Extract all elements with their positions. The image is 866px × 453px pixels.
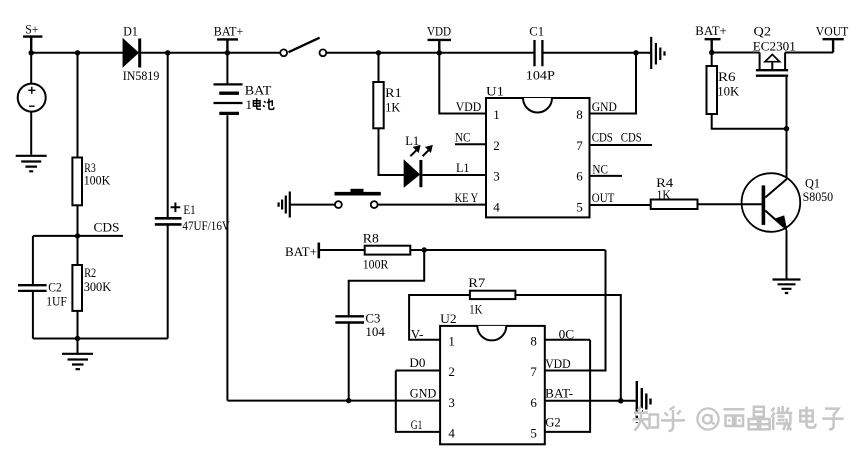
svg-text:BAT+: BAT+ — [285, 244, 317, 259]
label 300K — [84, 279, 112, 294]
svg-text:100K: 100K — [84, 172, 111, 187]
junction dot R6 top — [709, 50, 714, 55]
junction dot R1 top — [376, 50, 381, 55]
junction dot R3 top — [75, 50, 80, 55]
svg-text:C2: C2 — [48, 279, 62, 294]
label 1K R1 — [385, 100, 401, 115]
wire E1 bottom to rail — [167, 225, 169, 338]
svg-text:1: 1 — [493, 107, 500, 122]
ground Q1 — [773, 280, 801, 294]
wire Q1 emitter down — [786, 231, 788, 279]
svg-text:L1: L1 — [405, 133, 419, 148]
node BAT+ terminal mid — [317, 243, 320, 259]
svg-text:BAT+: BAT+ — [214, 24, 244, 39]
svg-text:5: 5 — [576, 199, 583, 214]
label L1 pin3 — [456, 160, 470, 175]
wire C3 bottom — [348, 324, 350, 401]
svg-text:BAT-: BAT- — [545, 386, 573, 401]
wire button to pin4 — [378, 204, 486, 206]
op-amp U1 IC body — [486, 98, 590, 217]
pin number 4 U2 — [448, 426, 455, 441]
wire R7 right riser — [515, 295, 620, 401]
label CDS net left — [94, 220, 120, 235]
label U2 — [440, 311, 457, 326]
wire D1 cathode to switch — [140, 52, 281, 54]
LED L1 diode — [404, 160, 421, 187]
label R4 — [656, 175, 674, 190]
svg-text:4: 4 — [448, 426, 455, 441]
label 104P — [526, 68, 555, 83]
resistor R8 — [365, 246, 411, 255]
resistor R1 — [373, 82, 383, 128]
resistor R4 — [651, 200, 698, 210]
svg-text:1K: 1K — [385, 100, 401, 115]
resistor R2 — [72, 265, 82, 311]
svg-text:R8: R8 — [363, 230, 379, 245]
wire LED to pin3 — [422, 174, 486, 176]
svg-text:D1: D1 — [123, 24, 138, 39]
label 100R — [363, 256, 389, 271]
ground U2 rotated — [637, 381, 651, 423]
svg-text:R1: R1 — [385, 85, 402, 100]
label R2 — [84, 265, 96, 280]
pin number 7 U2 — [530, 364, 537, 379]
node BAT+ terminal top — [217, 39, 238, 52]
solar cell symbol — [18, 84, 46, 112]
watermark zhihu at lijingwei (gray CJK strokes, embossed) — [634, 408, 845, 433]
resistor R6 — [707, 66, 718, 114]
capacitor C2 — [18, 285, 47, 291]
battery BAT — [214, 84, 243, 113]
label KEY pin4 — [455, 190, 479, 205]
svg-text:7: 7 — [530, 364, 537, 379]
label NC pin2 — [455, 129, 471, 144]
label R3 — [84, 160, 96, 175]
label L1 led — [405, 133, 419, 148]
svg-text:8: 8 — [530, 333, 537, 348]
junction dot GND column — [633, 50, 638, 55]
svg-text:BAT+: BAT+ — [695, 23, 727, 38]
svg-text:6: 6 — [576, 169, 583, 184]
label chi (CJK stroke glyph) — [263, 99, 274, 110]
pin number 2 U1 — [493, 138, 500, 153]
junction dot S+ column — [29, 50, 34, 55]
label CDS net right — [621, 129, 642, 144]
wire GND pin8 riser — [590, 53, 637, 114]
wire bottom rail left — [33, 338, 168, 340]
node BAT+ terminal right — [705, 39, 721, 52]
pin number 4 U1 — [493, 199, 500, 214]
wire top rail S+ to D1 — [31, 52, 123, 54]
svg-text:VDD: VDD — [456, 99, 482, 114]
svg-text:U2: U2 — [440, 311, 457, 326]
wire ground to button — [290, 204, 335, 206]
wire R4 to Q1 base — [698, 203, 762, 205]
label GND pin8 — [592, 99, 617, 114]
label EC2301 — [753, 39, 796, 54]
svg-text:KE Y: KE Y — [455, 190, 479, 205]
wire C2 bottom — [32, 292, 34, 339]
wire E1 top — [167, 53, 169, 217]
svg-text:U1: U1 — [486, 84, 504, 99]
svg-text:G2: G2 — [545, 415, 561, 430]
label V- pin1 — [411, 327, 424, 342]
svg-text:V-: V- — [411, 327, 424, 342]
svg-text:1: 1 — [448, 333, 455, 348]
label 10K — [717, 83, 740, 98]
wire R1 top — [378, 53, 380, 82]
pin number 3 U2 — [448, 395, 455, 410]
svg-text:1UF: 1UF — [46, 293, 67, 308]
svg-text:G1: G1 — [411, 417, 423, 432]
ground top right rotated — [651, 37, 664, 69]
wire R1 bottom to LED — [379, 128, 405, 175]
wire R8 to VDD riser — [410, 249, 605, 251]
svg-text:VDD: VDD — [427, 24, 451, 39]
wire BAT+ to Q2 source — [712, 52, 760, 54]
wire battery top — [226, 53, 228, 84]
pin number 3 U1 — [493, 169, 500, 184]
junction dot E1 top — [165, 50, 170, 55]
wire pin8 0C — [545, 339, 590, 341]
label R6 — [718, 69, 736, 84]
label R7 — [468, 275, 486, 290]
label R1 — [385, 85, 402, 100]
svg-text:EC2301: EC2301 — [753, 39, 796, 54]
label U1 — [486, 84, 504, 99]
svg-text:R2: R2 — [84, 265, 96, 280]
svg-text:6: 6 — [530, 395, 537, 410]
label VDD pin7 — [545, 356, 571, 371]
svg-text:VOUT: VOUT — [816, 24, 849, 39]
label E1 — [183, 202, 195, 217]
wire pin7 VDD riser — [545, 250, 606, 371]
label Q1 — [805, 176, 820, 191]
diode D1 — [123, 39, 139, 68]
label 104 C3 — [365, 324, 385, 339]
label C3 — [365, 310, 380, 325]
label IN5819 — [123, 68, 160, 83]
junction dot CDS — [75, 233, 80, 238]
svg-text:2: 2 — [493, 138, 500, 153]
svg-text:D0: D0 — [409, 355, 425, 370]
pin number 7 U1 — [576, 138, 583, 153]
ground below solar cell — [16, 156, 47, 172]
label Q2 — [754, 24, 772, 39]
label CDS pin7 — [592, 129, 613, 144]
wire pin4 G1 riser — [396, 371, 440, 432]
svg-text:104P: 104P — [526, 68, 555, 83]
ground below rail — [62, 354, 93, 369]
svg-text:104: 104 — [365, 324, 385, 339]
label VDD pin1 — [456, 99, 482, 114]
label BAT+ right — [695, 23, 727, 38]
svg-text:R6: R6 — [718, 69, 736, 84]
svg-text:10K: 10K — [717, 83, 740, 98]
wire solar cell top — [30, 53, 32, 84]
label S+ — [25, 22, 38, 37]
wire switch to C1 — [326, 52, 533, 54]
pin number 1 U2 — [448, 333, 455, 348]
label BAT- pin6 — [545, 386, 573, 401]
label dian (CJK stroke glyph) — [253, 98, 261, 109]
wire battery bottom long down — [226, 115, 228, 400]
svg-text:47UF/16V: 47UF/16V — [182, 218, 230, 233]
resistor R7 — [470, 291, 516, 299]
wire VDD down to pin1 — [439, 53, 486, 114]
svg-text:0C: 0C — [559, 326, 575, 341]
wire C1 to ground right — [542, 52, 650, 54]
pin number 6 U1 — [576, 169, 583, 184]
wire R3 top — [77, 53, 79, 158]
label 1K R4 — [657, 187, 672, 202]
svg-text:BAT: BAT — [245, 83, 272, 98]
label 0C pin8 — [559, 326, 575, 341]
ground at push button — [279, 192, 290, 218]
op-amp U2 IC body — [440, 326, 545, 444]
label GND pin3 — [410, 386, 437, 401]
label OUT pin5 — [592, 190, 615, 205]
node VDD terminal — [428, 40, 452, 53]
wire C2 top — [32, 236, 34, 284]
wire R2 bottom — [77, 311, 79, 339]
junction dot pin6 — [618, 398, 623, 403]
wire CDS net stub left — [33, 235, 123, 237]
svg-text:CDS: CDS — [621, 129, 642, 144]
label NC pin6 — [592, 162, 608, 177]
node S+ terminal — [23, 37, 42, 53]
label 1UF — [46, 293, 67, 308]
wire ground stub below rail — [77, 339, 79, 354]
label C1 — [529, 24, 544, 39]
resistor R3 — [72, 158, 82, 206]
push button KEY — [335, 189, 381, 208]
svg-text:S+: S+ — [25, 22, 38, 37]
svg-text:4: 4 — [493, 199, 500, 214]
wire pin6 NC stub — [590, 175, 623, 177]
label R8 — [363, 230, 379, 245]
pin number 6 U2 — [530, 395, 537, 410]
pin number 8 U2 — [530, 333, 537, 348]
pin number 5 U2 — [530, 426, 537, 441]
wire BAT+ to R8 — [319, 249, 365, 251]
pin number 5 U1 — [576, 199, 583, 214]
label VDD top — [427, 24, 451, 39]
label 47UF/16V — [182, 218, 230, 233]
svg-text:GND: GND — [592, 99, 617, 114]
svg-text:NC: NC — [592, 162, 608, 177]
svg-text:Q2: Q2 — [754, 24, 772, 39]
capacitor C1 — [535, 40, 543, 66]
label S8050 — [803, 189, 834, 204]
wire C3 link — [349, 250, 425, 315]
junction dot C3 bottom — [346, 398, 351, 403]
wire R6 bottom to gate — [712, 114, 787, 129]
svg-text:OUT: OUT — [592, 190, 615, 205]
label G2 pin5 — [545, 415, 561, 430]
LED light arrows — [410, 146, 432, 157]
svg-text:NC: NC — [455, 129, 471, 144]
svg-text:2: 2 — [448, 364, 455, 379]
svg-text:CDS: CDS — [94, 220, 120, 235]
capacitor C3 — [335, 316, 364, 322]
svg-text:100R: 100R — [363, 256, 389, 271]
switch S1 — [280, 38, 326, 56]
pin number 1 U1 — [493, 107, 500, 122]
wire R3 bottom to CDS node — [77, 205, 79, 236]
svg-text:IN5819: IN5819 — [123, 68, 160, 83]
label C2 — [48, 279, 62, 294]
pin number 8 U1 — [576, 107, 583, 122]
label D0 pin2 — [409, 355, 425, 370]
label BAT+ top — [214, 24, 244, 39]
wire pin2 D0 — [396, 370, 440, 372]
svg-text:1K: 1K — [469, 301, 482, 316]
label BAT — [245, 83, 272, 98]
label D1 — [123, 24, 138, 39]
svg-text:300K: 300K — [84, 279, 112, 294]
wire pin6 BAT- — [545, 400, 636, 402]
node VOUT terminal — [823, 39, 844, 52]
wire Q2 drain to VOUT — [785, 52, 833, 54]
junction dot gate — [784, 126, 789, 131]
wire solar cell to ground — [30, 112, 32, 155]
wire pin5 OUT to R4 — [590, 204, 651, 206]
transistor Q1 NPN — [742, 173, 801, 232]
wire pin3 GND rail — [227, 400, 440, 402]
svg-text:7: 7 — [576, 138, 583, 153]
pin number 2 U2 — [448, 364, 455, 379]
label G1 pin4 — [411, 417, 423, 432]
wire R6 top — [711, 53, 713, 67]
svg-text:R7: R7 — [468, 275, 486, 290]
wire pin5 G2 riser — [545, 340, 590, 432]
junction dot R8 out — [422, 247, 427, 252]
svg-text:L1: L1 — [456, 160, 470, 175]
label 1K R7 — [469, 301, 482, 316]
label 1 of 1(dianchi) — [246, 97, 253, 112]
svg-text:3: 3 — [493, 169, 500, 184]
svg-text:C1: C1 — [529, 24, 544, 39]
label 100K — [84, 172, 111, 187]
svg-text:1K: 1K — [657, 187, 672, 202]
wire gate and collector vertical — [786, 77, 788, 180]
junction dot VDD — [437, 50, 442, 55]
svg-text:E1: E1 — [183, 202, 195, 217]
svg-text:5: 5 — [530, 426, 537, 441]
wire pin2 NC stub — [455, 143, 486, 145]
label VOUT — [816, 24, 849, 39]
svg-text:3: 3 — [448, 395, 455, 410]
watermark at-sign — [699, 410, 720, 431]
wire R7 left riser — [409, 295, 470, 340]
svg-text:8: 8 — [576, 107, 583, 122]
label BAT+ mid — [285, 244, 317, 259]
svg-text:S8050: S8050 — [803, 189, 834, 204]
svg-text:1: 1 — [246, 97, 253, 112]
junction dot BAT column — [225, 50, 230, 55]
svg-text:GND: GND — [410, 386, 437, 401]
wire pin7 CDS stub — [590, 144, 653, 146]
transistor Q2 PMOS — [756, 53, 788, 76]
wire R2 top — [77, 236, 79, 265]
svg-text:CDS: CDS — [592, 129, 613, 144]
capacitor E1 polarized — [155, 203, 182, 225]
junction dot rail ground — [75, 336, 80, 341]
svg-text:VDD: VDD — [545, 356, 571, 371]
